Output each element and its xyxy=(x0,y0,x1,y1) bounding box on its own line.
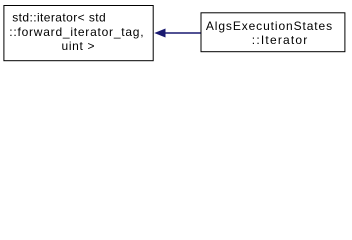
inheritance arrow wire xyxy=(165,32,201,34)
svg-text:uint >: uint > xyxy=(62,39,95,53)
svg-text:AlgsExecutionStates: AlgsExecutionStates xyxy=(206,19,332,33)
node box std::iterator xyxy=(4,6,153,61)
svg-text:::forward_iterator_tag,: ::forward_iterator_tag, xyxy=(9,25,143,39)
svg-text:std::iterator< std: std::iterator< std xyxy=(12,11,106,25)
node box AlgsExecutionStates::Iterator xyxy=(201,13,345,52)
svg-text:::Iterator: ::Iterator xyxy=(252,33,307,47)
inheritance arrowhead xyxy=(154,29,165,38)
